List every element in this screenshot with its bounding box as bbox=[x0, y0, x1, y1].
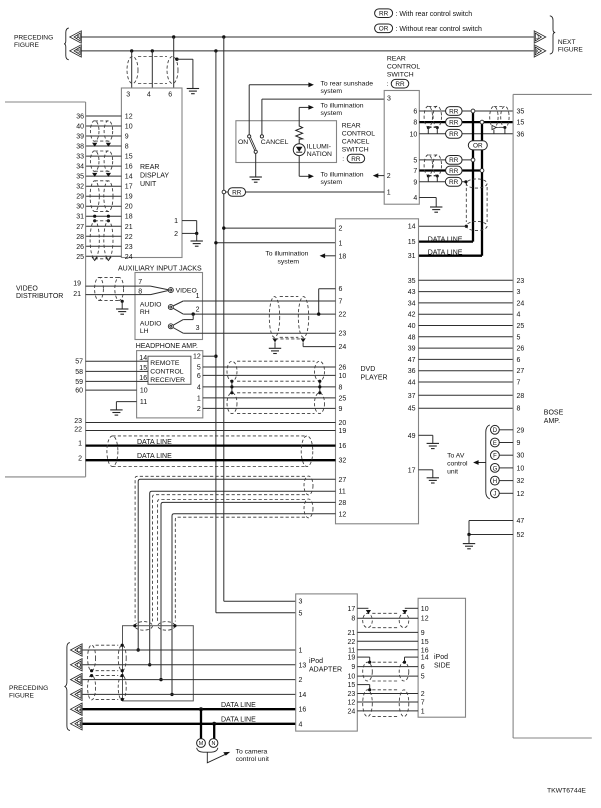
wire iPod adapter 24 to iPod side 1 bbox=[357, 710, 418, 712]
svg-text:33: 33 bbox=[76, 154, 84, 161]
wire HP 2 to DVD 9 bbox=[203, 407, 336, 409]
svg-text:7: 7 bbox=[413, 168, 417, 175]
junction wire 28 / iPod adapter 2 bbox=[159, 678, 162, 681]
svg-text:12: 12 bbox=[348, 700, 356, 707]
connector circle N bbox=[209, 739, 218, 748]
svg-text:RR: RR bbox=[449, 119, 459, 126]
svg-text:3: 3 bbox=[387, 95, 391, 102]
svg-text:17: 17 bbox=[408, 467, 416, 474]
vertical shielded cable around data-line links bbox=[465, 183, 467, 223]
shielded cable around wires 9/6 and 10/5 bbox=[363, 662, 373, 681]
svg-text:40: 40 bbox=[408, 323, 416, 330]
block REMOTE CONTROL RECEIVER bbox=[148, 356, 191, 384]
wire to iPod adapter pin 5 bbox=[216, 612, 296, 614]
shield drain junction bbox=[427, 175, 430, 178]
ground (HP 11) bbox=[110, 410, 122, 415]
svg-text:6: 6 bbox=[517, 357, 521, 364]
wire shield drain to ground bbox=[121, 301, 123, 308]
svg-text:23: 23 bbox=[125, 244, 133, 251]
svg-text:K: K bbox=[536, 49, 540, 55]
svg-text:23: 23 bbox=[517, 278, 525, 285]
wire ON contact to rear sunshade system bbox=[248, 85, 250, 135]
svg-text:1: 1 bbox=[339, 240, 343, 247]
shield drain junction bbox=[90, 669, 93, 672]
switch contact CANCEL bbox=[260, 135, 263, 138]
wire iPod adapter 21 to iPod side 9 bbox=[357, 631, 418, 633]
svg-text:CONTROL: CONTROL bbox=[342, 130, 375, 137]
wire preceding-figure 34 to RDU pin 16 bbox=[86, 165, 122, 167]
ground (aux input shield) bbox=[116, 309, 128, 314]
svg-text:27: 27 bbox=[517, 368, 525, 375]
svg-text:OR: OR bbox=[473, 143, 483, 150]
wire shield drain to wire 9 bbox=[427, 176, 429, 182]
svg-text:19: 19 bbox=[348, 655, 356, 662]
svg-text:10: 10 bbox=[421, 606, 429, 613]
block REAR DISPLAY UNIT bbox=[121, 88, 182, 258]
wire connector D to BOSE 29 bbox=[499, 429, 513, 431]
wire HP 15 stub bbox=[137, 370, 148, 372]
svg-text:9: 9 bbox=[517, 440, 521, 447]
svg-text:26: 26 bbox=[76, 244, 84, 251]
connector arrow H (preceding figure) bbox=[71, 718, 83, 730]
svg-text:16: 16 bbox=[339, 443, 347, 450]
svg-text:19: 19 bbox=[73, 281, 81, 288]
wire BOSE 52 to ground bbox=[469, 534, 513, 536]
shield tail arrowheads below wire 25 bbox=[92, 257, 97, 261]
svg-text:7: 7 bbox=[517, 380, 521, 387]
connector circle E (to AV control unit) bbox=[491, 438, 500, 447]
svg-text:To illumination: To illumination bbox=[321, 102, 364, 109]
block AUXILIARY INPUT JACKS bbox=[135, 273, 203, 340]
shield drain junction bbox=[121, 644, 124, 647]
svg-text:9: 9 bbox=[351, 664, 355, 671]
svg-text:: With rear control switch: : With rear control switch bbox=[396, 11, 473, 18]
switch lever SW1 bbox=[250, 138, 255, 150]
junction vertical A / DVD pin 2 wire bbox=[222, 226, 225, 229]
wire D to iPod adapter 13 bbox=[83, 664, 296, 666]
wire preceding-figure 39 to RDU pin 9 bbox=[86, 135, 122, 137]
svg-text:4: 4 bbox=[517, 312, 521, 319]
wire aux 1 to DVD 7 bbox=[183, 300, 335, 302]
svg-text:59: 59 bbox=[75, 379, 83, 386]
block REAR CONTROL SWITCH bbox=[384, 91, 419, 205]
svg-text:FIGURE: FIGURE bbox=[14, 42, 40, 49]
junction bus A / vertical drop wire bbox=[222, 35, 225, 38]
svg-text:16: 16 bbox=[125, 164, 133, 171]
svg-text:ADAPTER: ADAPTER bbox=[309, 666, 342, 673]
svg-text:C: C bbox=[77, 648, 81, 654]
connector circle wire 15 / vertical link bbox=[480, 120, 484, 124]
svg-text:AUDIO: AUDIO bbox=[140, 302, 162, 309]
svg-text:SWITCH: SWITCH bbox=[342, 146, 369, 153]
svg-text:24: 24 bbox=[339, 344, 347, 351]
svg-text:NEXT: NEXT bbox=[558, 39, 576, 46]
svg-text:system: system bbox=[321, 110, 343, 117]
svg-text:18: 18 bbox=[339, 253, 347, 260]
svg-text:14: 14 bbox=[299, 692, 307, 699]
junction BOSE 47/52 ground wire bbox=[467, 533, 470, 536]
shield drain marker onto wire 35 bbox=[106, 173, 111, 177]
svg-text:FIGURE: FIGURE bbox=[9, 693, 35, 700]
wire HP 16 stub bbox=[137, 380, 148, 382]
svg-text:iPod: iPod bbox=[434, 654, 448, 661]
ground (ON/CANCEL switch) bbox=[250, 177, 262, 182]
wire iPod adapter 23 to iPod side 2 bbox=[357, 693, 418, 695]
svg-text:19: 19 bbox=[125, 194, 133, 201]
wire DVD 44 to BOSE 7 bbox=[419, 381, 514, 383]
wire bus B to RDU pin 4 bbox=[151, 51, 153, 88]
svg-text:2: 2 bbox=[387, 173, 391, 180]
wire resistor to LED bbox=[298, 139, 300, 144]
svg-text:DATA LINE: DATA LINE bbox=[137, 453, 172, 460]
svg-text:BOSE: BOSE bbox=[544, 410, 564, 417]
shielded pair around wires 35/15 at BOSE bbox=[490, 106, 498, 127]
wire shield drain to iPod side 14 bbox=[405, 656, 419, 658]
brace left of A/B arrows bbox=[64, 28, 69, 60]
svg-text:1: 1 bbox=[174, 218, 178, 225]
shield drain junction bbox=[436, 126, 439, 129]
junction wire 27 / iPod adapter 1 bbox=[137, 648, 140, 651]
wire CANCEL contact to rear control switch pin 3 bbox=[261, 99, 263, 135]
svg-text:CONTROL: CONTROL bbox=[387, 63, 420, 70]
shield drain junction on wire 9 bbox=[464, 180, 467, 183]
svg-text:31: 31 bbox=[76, 214, 84, 221]
svg-text:21: 21 bbox=[73, 291, 81, 298]
svg-text:DISTRIBUTOR: DISTRIBUTOR bbox=[16, 293, 63, 300]
shielded pair around wires 5/6 bbox=[227, 361, 237, 381]
wire RCS 8 to BOSE 15 (data line) bbox=[419, 121, 513, 123]
svg-text:DISPLAY: DISPLAY bbox=[140, 173, 169, 180]
connector arrow A (preceding figure) bbox=[70, 31, 82, 43]
svg-text:AUXILIARY INPUT JACKS: AUXILIARY INPUT JACKS bbox=[118, 265, 202, 272]
svg-text:11: 11 bbox=[140, 399, 147, 406]
resistor (illumination) bbox=[296, 126, 303, 139]
svg-text:12: 12 bbox=[339, 511, 347, 518]
svg-text:3: 3 bbox=[299, 599, 303, 606]
svg-text:9: 9 bbox=[421, 630, 425, 637]
svg-text:5: 5 bbox=[517, 334, 521, 341]
wire DVD 43 to BOSE 3 bbox=[419, 291, 514, 293]
wire connector J to BOSE 12 bbox=[499, 492, 513, 494]
svg-text:UNIT: UNIT bbox=[140, 181, 157, 188]
svg-text:DATA LINE: DATA LINE bbox=[428, 250, 463, 257]
wire iPod adapter 12 to iPod side 7 bbox=[357, 701, 418, 703]
wire DVD 17 to ground bbox=[419, 469, 433, 471]
connector circle J (to AV control unit) bbox=[491, 489, 500, 498]
svg-text:DATA LINE: DATA LINE bbox=[221, 702, 256, 709]
svg-text:16: 16 bbox=[139, 375, 147, 382]
wire HP 11 to ground bbox=[116, 401, 136, 403]
svg-text:RR: RR bbox=[232, 189, 242, 196]
svg-text:3: 3 bbox=[517, 289, 521, 296]
shield drain junction (19) bbox=[368, 661, 371, 664]
wire switch common to ground bbox=[255, 153, 257, 176]
svg-text:26: 26 bbox=[339, 365, 347, 372]
switch contact ON bbox=[248, 135, 251, 138]
shielded pair around wires 19/21 bbox=[95, 277, 104, 300]
wire video distributor 21 to aux 8 bbox=[86, 294, 135, 296]
wire aux pin 8 to video jack bbox=[135, 294, 151, 296]
shield drain marker (17) bbox=[366, 610, 371, 614]
shield drain junction bbox=[121, 698, 124, 701]
wire DVD 37 to BOSE 28 bbox=[419, 394, 514, 396]
RR oval on wire 9 bbox=[445, 177, 462, 186]
wire DVD 47 to BOSE 6 bbox=[419, 358, 514, 360]
svg-text:22: 22 bbox=[74, 426, 82, 433]
wire 23 to DVD 20 bbox=[86, 422, 336, 424]
legend RR oval: with rear control switch bbox=[375, 9, 393, 18]
wire shield drain to wire 36 bbox=[493, 130, 495, 134]
wire video distributor 19 to aux 7 bbox=[86, 285, 135, 287]
svg-text:9: 9 bbox=[413, 179, 417, 186]
svg-text:10: 10 bbox=[125, 124, 133, 131]
ground (RCS pin 4) bbox=[430, 207, 442, 212]
switch pivot contact bbox=[254, 150, 257, 153]
svg-text:2: 2 bbox=[421, 691, 425, 698]
illumination LED bbox=[293, 144, 305, 156]
svg-text:32: 32 bbox=[517, 478, 525, 485]
connector arrow G (preceding figure) bbox=[71, 703, 83, 715]
bracket for AV control connectors bbox=[486, 425, 490, 499]
junction wire 12 / iPod adapter 14 bbox=[170, 693, 173, 696]
svg-text:2: 2 bbox=[299, 677, 303, 684]
wire preceding-figure 32 to RDU pin 17 bbox=[86, 185, 122, 187]
wire DVD 12 down to iPod adapter 14 bbox=[172, 514, 336, 695]
connector arrow D (preceding figure) bbox=[71, 659, 83, 671]
svg-text:19: 19 bbox=[339, 428, 347, 435]
svg-text:12: 12 bbox=[125, 114, 133, 121]
svg-text:35: 35 bbox=[517, 109, 525, 116]
svg-text:RR: RR bbox=[449, 168, 459, 175]
svg-text:1: 1 bbox=[299, 648, 303, 655]
shield drain junction (lower capsule top) bbox=[107, 219, 110, 222]
svg-text:20: 20 bbox=[125, 204, 133, 211]
svg-text:DATA LINE: DATA LINE bbox=[221, 717, 256, 724]
svg-text:1: 1 bbox=[78, 441, 82, 448]
svg-text:E: E bbox=[77, 678, 81, 684]
svg-text:1: 1 bbox=[421, 708, 425, 715]
svg-text:8: 8 bbox=[413, 120, 417, 127]
wire preceding-figure 27 to RDU pin 21 bbox=[86, 225, 122, 227]
svg-text:control unit: control unit bbox=[236, 756, 269, 763]
svg-text:ILLUMI-: ILLUMI- bbox=[307, 144, 331, 151]
svg-text:34: 34 bbox=[76, 164, 84, 171]
junction wire 11 / iPod adapter 13 bbox=[148, 663, 151, 666]
svg-text:6: 6 bbox=[339, 286, 343, 293]
svg-text:To AV: To AV bbox=[447, 453, 465, 460]
shield drain junction bbox=[121, 669, 124, 672]
svg-text:29: 29 bbox=[517, 427, 525, 434]
wire HP 1 to DVD 25 bbox=[203, 397, 336, 399]
svg-text:To illumination: To illumination bbox=[321, 171, 364, 178]
svg-text:A: A bbox=[76, 35, 80, 41]
connector circle wire 5 / vertical link bbox=[471, 158, 475, 162]
svg-text:To camera: To camera bbox=[236, 748, 268, 755]
svg-text:6: 6 bbox=[413, 109, 417, 116]
svg-text:DATA LINE: DATA LINE bbox=[428, 236, 463, 243]
svg-text:35: 35 bbox=[408, 278, 416, 285]
svg-text:18: 18 bbox=[125, 214, 133, 221]
block preceding figure (left edge) bbox=[5, 101, 86, 103]
svg-text:36: 36 bbox=[517, 131, 525, 138]
wire resistor to illumination system bbox=[298, 107, 300, 126]
wire preceding-figure 28 to RDU pin 22 bbox=[86, 235, 122, 237]
wire DVD 34 to BOSE 24 bbox=[419, 302, 514, 304]
connector arrow K (next figure) bbox=[534, 45, 546, 57]
wire vertical link wire15/7 to DVD 31 (data line) bbox=[481, 122, 483, 256]
wire iPod adapter 19 to shield drain bbox=[357, 656, 369, 658]
wire preceding-figure 25 to RDU pin 24 bbox=[86, 255, 122, 257]
svg-text:2: 2 bbox=[339, 226, 343, 233]
wire vertical link wire35/5 to DVD 15 (data line) bbox=[472, 111, 474, 242]
wire preceding-figure 31 to RDU pin 18 bbox=[86, 215, 122, 217]
arrow to AV control unit bbox=[473, 460, 479, 465]
wire DVD 40 to BOSE 25 bbox=[419, 325, 514, 327]
svg-text:15: 15 bbox=[348, 682, 356, 689]
wire E to iPod adapter 2 bbox=[83, 679, 296, 681]
svg-text:10: 10 bbox=[517, 465, 525, 472]
svg-text:DATA LINE: DATA LINE bbox=[137, 439, 172, 446]
shield drain junction bbox=[436, 175, 439, 178]
shielded group around wires 32/29/30 bbox=[90, 181, 99, 212]
wire DVD 45 to BOSE 8 bbox=[419, 407, 514, 409]
svg-text:RR: RR bbox=[379, 11, 389, 18]
connector arrow B (preceding figure) bbox=[70, 45, 82, 57]
svg-text:system: system bbox=[278, 259, 300, 266]
wire DVD 48 to BOSE 5 bbox=[419, 336, 514, 338]
junction wire H / camera drop N bbox=[212, 722, 216, 726]
RR oval on wire 6 bbox=[446, 107, 463, 116]
svg-text:OR: OR bbox=[379, 26, 389, 33]
shield drain junction on wire 31 bbox=[107, 215, 110, 218]
wire iPod adapter 22 to iPod side 15 bbox=[357, 640, 418, 642]
wire connector F to BOSE 30 bbox=[499, 454, 513, 456]
block HEADPHONE AMP bbox=[137, 351, 203, 418]
shield drain junction (top shield) bbox=[175, 58, 178, 61]
shielded pair around wires 6/8 at RCS bbox=[424, 106, 432, 127]
wire C to iPod adapter 1 bbox=[83, 649, 296, 651]
wire preceding-figure 36 to RDU pin 12 bbox=[86, 115, 122, 117]
svg-text:15: 15 bbox=[139, 365, 147, 372]
svg-text:24: 24 bbox=[125, 254, 133, 261]
wire bus B from preceding figure to next figure bbox=[81, 50, 534, 52]
svg-text:7: 7 bbox=[339, 299, 343, 306]
wire bus B to RDU pin 3 bbox=[131, 51, 133, 88]
shielded cable around wires 23/2,12/7,24/1 bbox=[363, 690, 373, 717]
svg-text:iPod: iPod bbox=[309, 658, 323, 665]
junction vertical B / headphone amp pin 12 wire bbox=[214, 355, 217, 358]
svg-text:4: 4 bbox=[413, 195, 417, 202]
wire iPod adapter 15 to shield drain bbox=[357, 684, 369, 686]
svg-text:SIDE: SIDE bbox=[434, 662, 451, 669]
svg-text:G: G bbox=[77, 707, 81, 713]
shielded pair around wires 1/2 bbox=[227, 393, 237, 414]
svg-text:24: 24 bbox=[517, 300, 525, 307]
junction RDU pins 1/2 ground wire bbox=[195, 232, 198, 235]
shield drain junction (lower capsule top) bbox=[93, 219, 96, 222]
wire 1 DATA LINE to DVD 16 bbox=[86, 444, 336, 446]
svg-text:17: 17 bbox=[348, 606, 356, 613]
svg-text:7: 7 bbox=[421, 700, 425, 707]
wire HP 14 stub bbox=[137, 360, 148, 362]
shielded pair around wires E/F bbox=[88, 675, 96, 700]
svg-text:5: 5 bbox=[421, 674, 425, 681]
shield drain junction on wire 14 bbox=[465, 225, 468, 228]
svg-text:36: 36 bbox=[408, 368, 416, 375]
svg-text:F: F bbox=[493, 454, 497, 460]
shield drain marker (left) bbox=[272, 338, 277, 342]
svg-text:ON: ON bbox=[238, 139, 248, 146]
svg-text:RH: RH bbox=[140, 309, 150, 316]
shielded pair around DATA LINE wires 1/2 bbox=[112, 435, 307, 437]
wire preceding-figure 58 to HP amp bbox=[86, 370, 137, 372]
svg-text:1: 1 bbox=[387, 189, 391, 196]
svg-text:4: 4 bbox=[299, 721, 303, 728]
ground (top shield drain) bbox=[187, 89, 199, 94]
svg-text:17: 17 bbox=[125, 184, 133, 191]
svg-text:8: 8 bbox=[351, 616, 355, 623]
ground (RDU pins 1,2) bbox=[191, 241, 203, 246]
svg-text:47: 47 bbox=[517, 518, 525, 525]
svg-text:30: 30 bbox=[76, 204, 84, 211]
svg-text:32: 32 bbox=[76, 184, 84, 191]
junction bus A / wire to RDU pin 6 bbox=[172, 35, 175, 38]
wire bus A from preceding figure to next figure bbox=[81, 36, 534, 38]
svg-text::: : bbox=[342, 156, 344, 163]
junction bus B / wire to RDU pin 4 bbox=[151, 49, 154, 52]
svg-text:8: 8 bbox=[125, 144, 129, 151]
svg-text:RR: RR bbox=[449, 179, 459, 186]
RR oval on wire 8 bbox=[446, 118, 463, 127]
svg-text::: : bbox=[387, 81, 389, 88]
svg-text:40: 40 bbox=[76, 124, 84, 131]
connector circle wire 7 / vertical link bbox=[480, 169, 484, 173]
svg-text:27: 27 bbox=[339, 477, 347, 484]
svg-text:36: 36 bbox=[76, 114, 84, 121]
svg-text:24: 24 bbox=[348, 708, 356, 715]
wire connector G to BOSE 10 bbox=[499, 467, 513, 469]
wire preceding-figure 29 to RDU pin 19 bbox=[86, 195, 122, 197]
svg-text:38: 38 bbox=[76, 144, 84, 151]
block iPod SIDE bbox=[418, 598, 465, 717]
wire DVD 35 to BOSE 23 bbox=[419, 279, 514, 281]
wire iPod adapter 17 to shield drain bbox=[357, 607, 368, 609]
jack VIDEO bbox=[168, 288, 173, 293]
svg-text:15: 15 bbox=[125, 154, 133, 161]
wire iPod adapter 9 to iPod side 6 bbox=[357, 666, 418, 668]
svg-text:control: control bbox=[447, 461, 468, 468]
wire RH jack to aux pin 1 bbox=[173, 301, 183, 306]
shielded cable around wire 8/12 bbox=[363, 613, 373, 627]
shield bottom ellipse (28/12) bbox=[158, 622, 175, 631]
svg-text:49: 49 bbox=[408, 433, 416, 440]
svg-text:TKWT6744E: TKWT6744E bbox=[547, 787, 586, 794]
svg-text:CONTROL: CONTROL bbox=[150, 369, 183, 376]
svg-text:REAR: REAR bbox=[342, 122, 361, 129]
ground (DVD 17) bbox=[427, 478, 439, 483]
svg-text:22: 22 bbox=[125, 234, 133, 241]
wire to DVD pin 2 bbox=[224, 227, 336, 229]
svg-text:SWITCH: SWITCH bbox=[387, 71, 414, 78]
wire LH jack to aux pin 3 bbox=[173, 328, 183, 334]
wire DVD 27 down to iPod adapter 1 bbox=[138, 479, 335, 650]
wire DVD 11 down to iPod adapter 13 bbox=[150, 491, 336, 665]
ground (aux shield) bbox=[269, 348, 281, 353]
svg-text:57: 57 bbox=[75, 359, 83, 366]
svg-text:42: 42 bbox=[408, 312, 416, 319]
svg-text:E: E bbox=[493, 441, 497, 447]
connector circle F (to AV control unit) bbox=[491, 451, 500, 460]
